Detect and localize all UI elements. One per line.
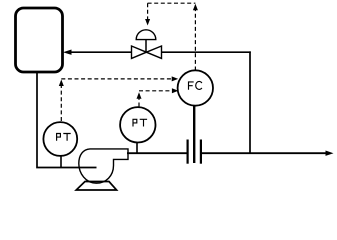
pipe: valve to right riser xyxy=(162,51,251,53)
pipe: right riser down to main line xyxy=(249,51,251,153)
pump P1 base xyxy=(76,182,116,191)
signal: PT1 riser (dashed) with up arrow xyxy=(59,80,64,122)
FC controller bubble xyxy=(178,70,213,105)
flow arrow at line end xyxy=(326,151,334,156)
pipe: orifice to line end xyxy=(202,152,327,154)
valve actuator diaphragm dome xyxy=(136,30,156,40)
pump P1 casing with discharge nozzle xyxy=(79,149,128,183)
pipe: vessel outlet down and to pump suction xyxy=(37,73,97,168)
signal: drop to valve actuator (dashed) with down arrow xyxy=(145,3,150,25)
pipe: pump discharge to orifice xyxy=(127,152,187,154)
valve actuator stem xyxy=(145,40,147,53)
signal: PT2 to FC (dashed) with arrow into FC xyxy=(139,88,178,93)
signal: PT2 riser (dashed) with up arrow xyxy=(137,92,142,106)
vessel V1 xyxy=(16,8,63,72)
control valve body (bowtie) xyxy=(132,46,162,58)
PT1 tap line xyxy=(60,155,62,167)
FC sensing line to orifice xyxy=(193,104,195,163)
PT2 tap line xyxy=(136,142,138,154)
orifice plate left flange xyxy=(187,140,189,164)
orifice plate right flange xyxy=(200,140,202,164)
PT2 instrument bubble xyxy=(120,107,155,142)
signal: PT1 to FC (dashed) with arrow into FC xyxy=(61,76,178,81)
signal: FC riser (dashed) with up arrow at top corner xyxy=(193,4,198,71)
signal: top run FC to valve (dashed) xyxy=(148,2,196,4)
PT1 instrument bubble xyxy=(43,122,77,156)
pipe: valve outlet to vessel (recycle return) xyxy=(63,50,132,55)
